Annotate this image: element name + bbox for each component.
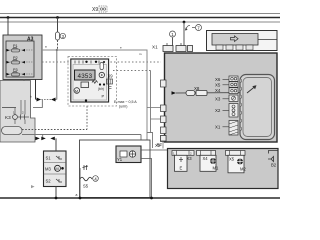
svg-text:(u/m): (u/m) [119, 105, 127, 109]
svg-text:B2: B2 [271, 163, 277, 168]
svg-text:X9: X9 [92, 7, 98, 13]
switch S2 [46, 179, 63, 184]
wire Y1 lower to bus [141, 159, 152, 199]
harness loom (stadium) [2, 127, 23, 135]
wire from bus to A3 [7, 18, 9, 37]
wire fuse branch down to plug arrows [56, 49, 58, 100]
wire bus to strip with junction [183, 21, 190, 46]
label X4 [215, 88, 221, 93]
ECU left pin strip [161, 80, 167, 142]
wire A3 pin down mid [24, 79, 29, 99]
svg-text:K3: K3 [5, 115, 11, 120]
plug arrows (inline connection) [36, 98, 57, 102]
fuse F [56, 32, 60, 40]
connector strip X1 (ECU top) [152, 43, 193, 52]
junction S5 ground [79, 197, 82, 200]
svg-text:M2: M2 [240, 167, 246, 172]
clock symbol [99, 72, 104, 77]
svg-text:S2: S2 [46, 179, 52, 184]
svg-text:X3: X3 [187, 156, 193, 161]
wire S box to ground bus [55, 187, 57, 199]
connector X2 (valve) [157, 136, 167, 148]
tachograph pins [75, 61, 105, 64]
svg-text:E: E [180, 166, 183, 171]
fuse inside tacho [100, 63, 103, 70]
svg-text:M1: M1 [213, 166, 219, 171]
pressure switch S5 [80, 165, 98, 189]
svg-text:M: M [55, 166, 58, 171]
junction S box ground [55, 197, 58, 200]
bus wire 15 (top, thin) [0, 13, 280, 15]
wire fuse down [57, 40, 59, 49]
heater E [175, 155, 188, 171]
plug arrow row [35, 135, 55, 141]
bus wire 30 (dark) [0, 17, 280, 19]
tachograph P (solid box) [71, 59, 109, 102]
switch unit box S1/M3/S2 [44, 151, 67, 187]
gauge P2 [7, 56, 34, 64]
connector X9 (tacho side) [107, 74, 114, 89]
svg-text:(b/r): (b/r) [98, 87, 104, 91]
motor M1 [200, 155, 219, 171]
circled 1 (top) [170, 31, 176, 46]
svg-text:S1: S1 [46, 156, 52, 161]
wire loom to right (solid) [22, 134, 141, 136]
dashed wire cluster down [86, 106, 88, 130]
circled 7 [192, 25, 202, 31]
svg-text:X4: X4 [203, 156, 209, 161]
wire corner into relay area [16, 99, 29, 108]
solenoid valve Y1 [116, 146, 141, 163]
inline connector X8 [172, 86, 249, 96]
motor M3 [45, 165, 64, 171]
housing arrow [247, 85, 257, 93]
label X5 [215, 83, 229, 88]
junction fuse/supply [56, 49, 58, 51]
sensor B2 [268, 151, 278, 168]
svg-text:X5: X5 [229, 157, 235, 162]
wire left line y108 [2, 107, 16, 109]
ground bus wire [0, 197, 280, 199]
ECU connector housing [240, 75, 275, 140]
lower assembly box [168, 149, 279, 189]
gauge P3 [7, 68, 34, 76]
relay K3 [5, 100, 29, 124]
svg-text:X2: X2 [215, 108, 221, 113]
connector column X6..X1 [229, 76, 238, 135]
wire cluster X9 to strip (dashed) [113, 70, 151, 72]
wire into S1 box from top [55, 138, 57, 151]
wire A3 pin down left [35, 79, 37, 100]
tachograph unit (dashed boundary) [68, 57, 117, 107]
wire drop x141 to X2 [140, 135, 142, 149]
valve box area [80, 140, 151, 198]
wire X9 branch down [150, 71, 152, 133]
wire A3 to X1 strip (signal, dashed) [42, 61, 161, 63]
svg-text:Y1: Y1 [117, 157, 123, 162]
wire corners to ECU pins [147, 107, 161, 109]
wire bus to fuse [57, 18, 59, 33]
junction dots tacho bottom [85, 99, 87, 101]
label X3 [215, 97, 229, 102]
wire Y1 to lower box [141, 149, 167, 151]
connector X9 (top) [92, 6, 107, 13]
relay carrier bar (top right) [207, 31, 278, 51]
gauge P1 [7, 44, 34, 52]
odometer display 4353 [75, 70, 96, 80]
bus wire 31 (lower, thin) [0, 21, 280, 23]
svg-text:M: M [75, 89, 78, 93]
junction fuse wire [56, 16, 59, 19]
svg-text:X4: X4 [215, 88, 221, 93]
marker arrow [31, 185, 35, 188]
label X2 (ECU right) [215, 108, 229, 113]
svg-text:S5: S5 [83, 184, 89, 189]
svg-text:E-max ~ 0,5 A: E-max ~ 0,5 A [114, 100, 137, 104]
relay box in tacho [81, 82, 89, 88]
svg-text:X2: X2 [157, 142, 163, 147]
svg-text:X9: X9 [108, 74, 114, 79]
svg-text:X3: X3 [215, 97, 221, 102]
svg-text:4353: 4353 [77, 73, 92, 80]
junction Y1 ground [150, 197, 153, 200]
label X1 (ECU right) [215, 125, 229, 130]
svg-text:X6: X6 [215, 77, 221, 82]
wire A3 to corner (supply) [42, 50, 147, 133]
connector bar X5 [226, 151, 246, 156]
motor in tacho [74, 88, 80, 94]
dashed wire loom to cluster [22, 129, 87, 131]
body harness area (left gray) [0, 81, 35, 143]
label X6 [215, 77, 229, 82]
svg-text:M3: M3 [45, 167, 51, 172]
circled 3 [60, 33, 65, 38]
svg-text:P: P [102, 94, 105, 99]
svg-text:X5: X5 [215, 83, 221, 88]
junction at left on dark bus [7, 16, 10, 19]
svg-text:X1: X1 [152, 45, 158, 50]
svg-text:a: a [76, 193, 78, 197]
switch S1 [46, 156, 63, 161]
instrument cluster A3 [3, 35, 42, 80]
wire X2 pin to lower box [162, 142, 164, 149]
connector bar X4 [197, 151, 216, 156]
svg-text:X1: X1 [215, 125, 221, 130]
connector bar X3 [172, 151, 194, 156]
wire S5 branch to ground [79, 168, 81, 198]
resistor in tacho [92, 81, 98, 84]
wire branch to relay contacts [33, 100, 42, 108]
control unit (large gray box) [165, 53, 278, 142]
motor M2 [228, 155, 246, 173]
